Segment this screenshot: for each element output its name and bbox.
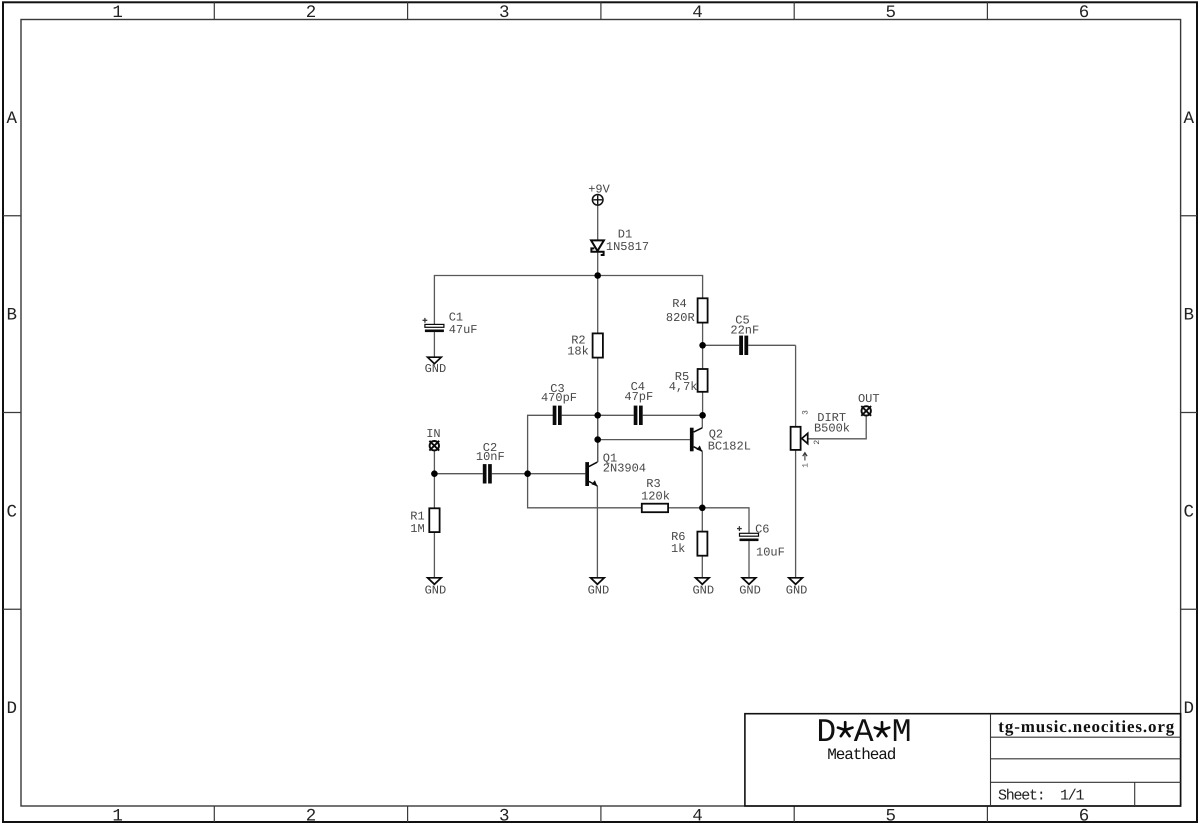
svg-text:470pF: 470pF	[541, 391, 577, 405]
svg-text:B500k: B500k	[814, 422, 850, 436]
svg-text:C: C	[1184, 502, 1195, 522]
svg-text:47uF: 47uF	[449, 323, 478, 337]
svg-text:1: 1	[112, 3, 123, 23]
svg-text:6: 6	[1079, 806, 1090, 826]
svg-text:2: 2	[306, 806, 317, 826]
svg-text:D: D	[1184, 699, 1195, 719]
svg-text:1: 1	[802, 463, 811, 468]
svg-text:5: 5	[886, 3, 897, 23]
svg-text:IN: IN	[426, 427, 440, 441]
svg-text:3: 3	[802, 410, 811, 415]
svg-text:5: 5	[886, 806, 897, 826]
svg-text:A: A	[1184, 109, 1195, 129]
svg-text:OUT: OUT	[858, 392, 880, 406]
svg-text:22nF: 22nF	[730, 324, 759, 338]
svg-text:D1: D1	[618, 227, 632, 241]
svg-text:B: B	[7, 306, 18, 326]
svg-text:1M: 1M	[410, 522, 424, 536]
svg-text:D: D	[7, 699, 18, 719]
svg-text:Meathead: Meathead	[827, 746, 896, 764]
svg-text:10uF: 10uF	[756, 546, 785, 560]
svg-text:820R: 820R	[666, 311, 695, 325]
svg-text:4: 4	[692, 3, 703, 23]
svg-text:GND: GND	[692, 583, 714, 597]
svg-text:1k: 1k	[671, 542, 685, 556]
svg-text:B: B	[1184, 306, 1195, 326]
svg-text:Sheet: 1/1: Sheet: 1/1	[998, 788, 1085, 805]
svg-text:A: A	[7, 109, 18, 129]
svg-text:C6: C6	[755, 523, 769, 537]
svg-text:GND: GND	[588, 583, 610, 597]
svg-text:GND: GND	[425, 583, 447, 597]
svg-text:GND: GND	[425, 362, 447, 376]
svg-text:4: 4	[692, 806, 703, 826]
svg-text:18k: 18k	[567, 345, 589, 359]
svg-text:C: C	[7, 502, 18, 522]
svg-text:R4: R4	[672, 297, 686, 311]
svg-text:10nF: 10nF	[476, 450, 505, 464]
svg-text:2: 2	[306, 3, 317, 23]
svg-text:tg-music.neocities.org: tg-music.neocities.org	[998, 717, 1175, 736]
svg-text:2N3904: 2N3904	[603, 462, 646, 476]
svg-text:GND: GND	[739, 583, 761, 597]
svg-text:3: 3	[499, 3, 510, 23]
svg-text:GND: GND	[786, 583, 808, 597]
svg-text:47pF: 47pF	[624, 390, 653, 404]
svg-text:BC182L: BC182L	[708, 439, 751, 453]
svg-text:2: 2	[813, 440, 822, 445]
svg-text:6: 6	[1079, 3, 1090, 23]
svg-text:1: 1	[112, 806, 123, 826]
svg-text:4,7k: 4,7k	[669, 380, 698, 394]
svg-text:+9V: +9V	[588, 182, 610, 196]
svg-text:3: 3	[499, 806, 510, 826]
svg-text:1N5817: 1N5817	[606, 240, 649, 254]
svg-text:120k: 120k	[641, 490, 670, 504]
